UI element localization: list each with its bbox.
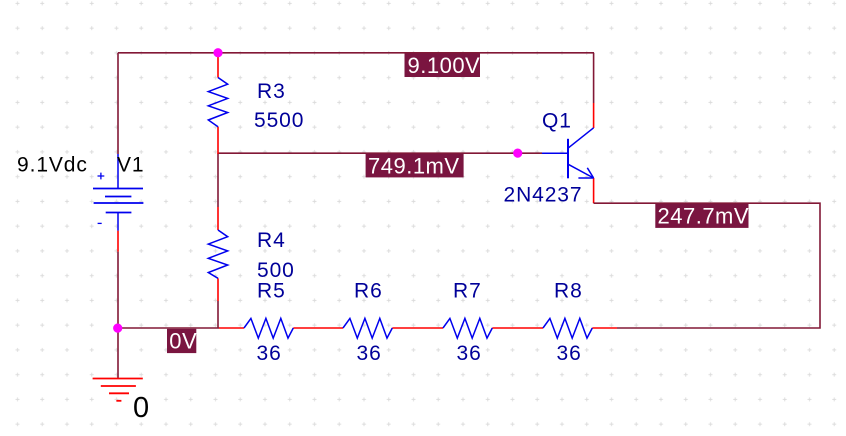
pin collector red [593, 103, 595, 128]
bias label 749.1mV [366, 153, 464, 178]
svg-text:0: 0 [133, 392, 149, 424]
wire R4 bottom maroon [217, 301, 219, 328]
pin R8 right red [592, 327, 617, 329]
wire collector drop maroon [593, 53, 595, 103]
V1 plus sign [98, 173, 105, 180]
wire emitter to right rail [594, 203, 820, 328]
label 500 [257, 259, 295, 282]
label R4 [257, 229, 286, 252]
pin R3 bottom red [217, 127, 219, 154]
junction dot top [213, 48, 222, 57]
voltage source V1 battery [93, 154, 143, 231]
bias label 9.100V [405, 53, 481, 78]
svg-text:9.1Vdc: 9.1Vdc [17, 153, 88, 176]
bias label 247.7mV [655, 203, 749, 228]
label 36 R8 [557, 342, 582, 365]
pin R6-R7 red [392, 327, 443, 329]
label R7 [453, 279, 482, 302]
label R5 [257, 279, 286, 302]
resistor R6 [343, 318, 392, 338]
label 36 R5 [257, 342, 282, 365]
V1 minus sign [98, 222, 102, 224]
svg-text:Q1: Q1 [542, 109, 572, 132]
pin R5-R6 red [293, 327, 343, 329]
svg-text:R5: R5 [257, 279, 286, 302]
svg-text:749.1mV: 749.1mV [368, 153, 460, 178]
svg-text:36: 36 [557, 342, 582, 365]
label 36 R7 [457, 342, 482, 365]
wire left rail V1 plus lead [117, 53, 119, 154]
label 9.1Vdc [17, 153, 88, 176]
wire base net [218, 152, 542, 154]
svg-text:R3: R3 [257, 80, 286, 103]
label 0 ground [133, 392, 149, 424]
label 5500 [254, 109, 304, 132]
resistor R7 [443, 318, 492, 338]
svg-text:36: 36 [357, 342, 382, 365]
svg-text:247.7mV: 247.7mV [658, 203, 750, 228]
svg-text:9.100V: 9.100V [408, 53, 481, 78]
svg-text:R7: R7 [453, 279, 482, 302]
label R8 [554, 279, 583, 302]
svg-text:R8: R8 [554, 279, 583, 302]
label R6 [354, 279, 383, 302]
label 36 R6 [357, 342, 382, 365]
label R3 [257, 80, 286, 103]
junction dot bottom [113, 324, 122, 333]
svg-text:36: 36 [257, 342, 282, 365]
svg-text:R4: R4 [257, 229, 286, 252]
pin V1 minus red [117, 231, 119, 252]
wire bottom left net [118, 327, 219, 329]
label 2N4237 [504, 184, 583, 207]
label Q1 [542, 109, 572, 132]
svg-text:5500: 5500 [254, 109, 304, 132]
pin R4 top red [217, 207, 219, 230]
pin R7-R8 red [492, 327, 543, 329]
pin R3 top red [217, 53, 219, 78]
svg-text:0V: 0V [169, 329, 197, 354]
resistor R8 [543, 318, 592, 338]
bias label 0V [167, 329, 197, 354]
resistor R3 [208, 78, 227, 127]
wire top rail from V1 to collector drop [118, 52, 594, 54]
label V1 [117, 153, 145, 176]
wire V1 minus column maroon [117, 252, 119, 379]
resistor R4 [208, 230, 227, 278]
transistor Q1 2N4237 [542, 128, 594, 179]
junction dot base [513, 149, 522, 158]
pin R5 left red [219, 327, 244, 329]
resistor R5 [244, 318, 293, 338]
pin emitter red [593, 178, 595, 203]
svg-text:V1: V1 [117, 153, 145, 176]
pin R4 bottom red [217, 278, 219, 301]
svg-text:R6: R6 [354, 279, 383, 302]
svg-text:2N4237: 2N4237 [504, 184, 583, 207]
ground [93, 379, 143, 401]
svg-text:36: 36 [457, 342, 482, 365]
wire R3 column maroon mid [217, 153, 219, 207]
